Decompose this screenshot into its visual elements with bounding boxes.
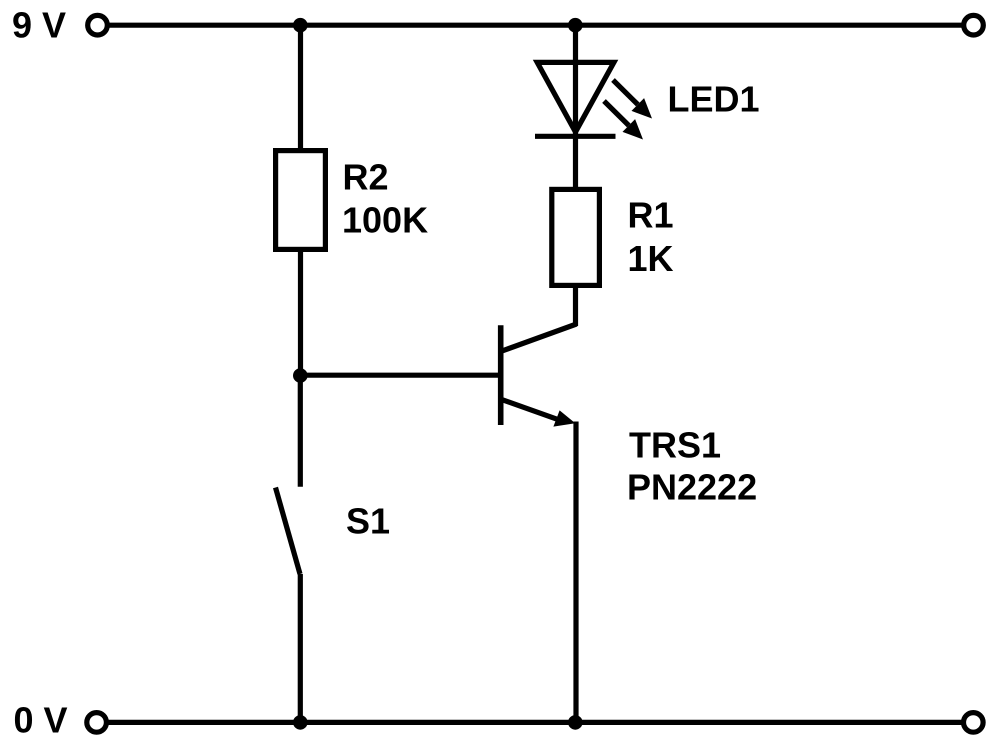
terminal top-right bbox=[964, 15, 984, 35]
svg-text:LED1: LED1 bbox=[668, 79, 760, 120]
svg-text:S1: S1 bbox=[346, 501, 390, 542]
resistor R1 bbox=[552, 189, 600, 285]
wire base node down to switch bbox=[298, 376, 303, 487]
svg-text:9 V: 9 V bbox=[12, 5, 66, 46]
terminal bottom-left bbox=[87, 713, 107, 733]
light emission arrow 2 bbox=[604, 101, 643, 140]
led LED1 triangle (anode) bbox=[537, 62, 614, 132]
wire R1 to collector bbox=[573, 285, 578, 326]
wire top rail bbox=[109, 23, 962, 28]
node base junction bbox=[293, 368, 308, 383]
svg-text:R1: R1 bbox=[628, 195, 674, 236]
node junction bottom rail / emitter bbox=[568, 715, 583, 730]
transistor TRS1 collector lead bbox=[503, 324, 577, 351]
svg-text:TRS1: TRS1 bbox=[629, 425, 721, 466]
svg-text:100K: 100K bbox=[342, 200, 428, 241]
node junction bottom rail / switch bbox=[293, 715, 308, 730]
terminal top-left bbox=[88, 15, 108, 35]
transistor TRS1 base bar bbox=[498, 325, 504, 425]
svg-text:1K: 1K bbox=[628, 238, 674, 279]
switch S1 blade (open) bbox=[276, 488, 301, 575]
svg-text:R2: R2 bbox=[343, 156, 389, 197]
svg-text:0 V: 0 V bbox=[14, 699, 68, 740]
wire emitter to bottom rail bbox=[573, 422, 578, 723]
wire from top rail to R2 bbox=[298, 25, 303, 150]
node junction top rail / LED bbox=[568, 18, 583, 33]
svg-text:PN2222: PN2222 bbox=[627, 467, 757, 508]
terminal bottom-right bbox=[964, 713, 984, 733]
wire switch to bottom rail bbox=[298, 574, 303, 722]
led LED1 cathode bar bbox=[535, 134, 616, 139]
transistor TRS1 emitter arrowhead bbox=[553, 410, 575, 426]
light emission arrow 1 bbox=[613, 80, 652, 119]
wire bottom rail bbox=[109, 720, 962, 725]
wire base node to transistor base bbox=[301, 373, 499, 378]
resistor R2 bbox=[276, 151, 326, 250]
node junction top rail / R2 bbox=[293, 18, 308, 33]
wire top rail through LED to R1 bbox=[573, 25, 578, 189]
transistor TRS1 emitter lead bbox=[503, 400, 558, 419]
wire from R2 to base node bbox=[298, 249, 303, 376]
